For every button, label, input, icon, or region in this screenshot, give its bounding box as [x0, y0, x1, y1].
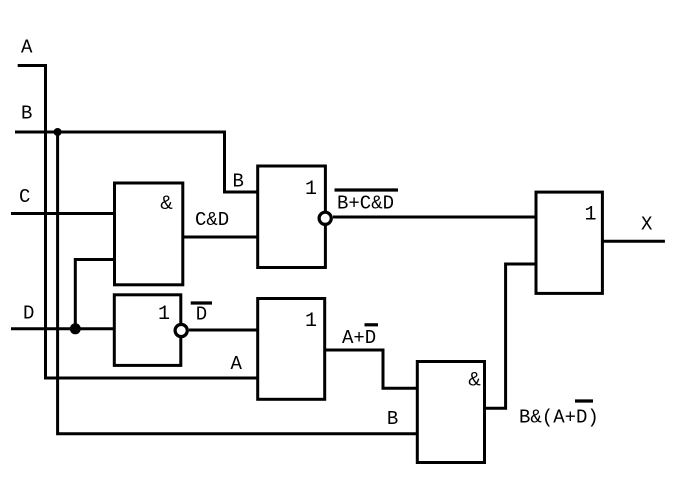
- svg-text:B+C&D: B+C&D: [337, 192, 394, 214]
- NOT gate U3 (inverter D): [114, 295, 187, 366]
- wire net NOT(B+C&D): [333, 216, 536, 219]
- svg-text:B: B: [21, 102, 32, 124]
- wire net A: [18, 66, 258, 379]
- wire net B&(A+NOT D): [485, 264, 537, 408]
- wire net D branch up to AND U1: [75, 260, 114, 329]
- svg-text:B: B: [387, 408, 398, 430]
- wire net A+NOT D: [325, 350, 418, 388]
- wire net B main run: [15, 132, 258, 192]
- svg-text:A+D: A+D: [342, 327, 376, 349]
- NOR gate U2 (B+C&D inverted): [258, 166, 332, 268]
- svg-text:A: A: [231, 353, 243, 375]
- wire net X output: [602, 240, 665, 243]
- svg-text:C&D: C&D: [195, 209, 229, 231]
- label B&(A+D) with overline on D: [519, 401, 599, 429]
- svg-text:D: D: [196, 304, 207, 326]
- svg-text:D: D: [23, 303, 34, 325]
- label B+C&D with overline: [335, 190, 399, 214]
- svg-text:&: &: [468, 370, 481, 391]
- OR gate U4 (A+NOT D): [258, 299, 325, 400]
- junction node D: [70, 323, 81, 334]
- svg-text:B: B: [233, 171, 244, 193]
- svg-text:C: C: [19, 186, 30, 208]
- wire net NOT D: [189, 329, 258, 332]
- wire net C: [11, 212, 115, 215]
- svg-text:X: X: [641, 214, 653, 236]
- wire net C&D: [183, 236, 258, 239]
- svg-text:1: 1: [305, 310, 317, 333]
- svg-text:A: A: [21, 37, 33, 59]
- svg-text:1: 1: [305, 178, 317, 201]
- svg-text:&: &: [160, 193, 173, 214]
- AND gate U5 (B & (A+NOT D)): [417, 362, 484, 463]
- junction node B: [54, 128, 62, 136]
- svg-text:B&(A+D): B&(A+D): [519, 407, 599, 429]
- svg-text:1: 1: [158, 303, 170, 326]
- AND gate U1 (C&D): [115, 183, 183, 285]
- label A+D with overline: [342, 325, 378, 349]
- label D with overline: [191, 303, 212, 326]
- svg-text:1: 1: [585, 204, 597, 227]
- wire net B branch down to AND U5: [58, 132, 418, 434]
- wire net D: [11, 327, 115, 330]
- OR gate U6 (output X): [536, 192, 602, 293]
